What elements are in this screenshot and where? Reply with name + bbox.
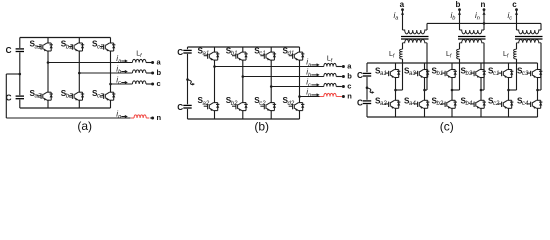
svg-text:b1: b1 xyxy=(437,71,444,77)
svg-text:a4: a4 xyxy=(409,101,416,107)
svg-text:a: a xyxy=(400,0,405,9)
svg-text:c1: c1 xyxy=(259,51,265,57)
svg-text:b4: b4 xyxy=(466,101,473,107)
svg-text:b: b xyxy=(157,68,162,77)
svg-text:d1: d1 xyxy=(288,51,295,57)
svg-text:c4: c4 xyxy=(522,101,529,107)
svg-text:c2: c2 xyxy=(97,94,104,100)
svg-text:b3: b3 xyxy=(466,71,473,77)
svg-text:C: C xyxy=(177,48,183,57)
svg-text:b2: b2 xyxy=(66,94,73,100)
svg-text:c2: c2 xyxy=(259,101,266,107)
svg-text:C: C xyxy=(177,103,183,112)
svg-text:b2: b2 xyxy=(231,101,238,107)
svg-text:c: c xyxy=(157,79,161,88)
svg-text:d2: d2 xyxy=(288,101,295,107)
svg-text:c1: c1 xyxy=(493,71,499,77)
svg-text:a3: a3 xyxy=(409,71,416,77)
svg-text:c: c xyxy=(347,82,351,91)
svg-text:(b): (b) xyxy=(254,119,269,133)
svg-text:a1: a1 xyxy=(203,51,210,57)
svg-text:a2: a2 xyxy=(203,101,210,107)
svg-text:C: C xyxy=(357,98,363,107)
svg-text:c2: c2 xyxy=(493,101,500,107)
svg-text:b1: b1 xyxy=(66,44,73,50)
svg-text:a1: a1 xyxy=(35,44,42,50)
svg-text:c3: c3 xyxy=(522,71,529,77)
svg-text:c: c xyxy=(512,0,517,9)
svg-text:n: n xyxy=(157,113,162,122)
svg-text:n: n xyxy=(481,0,486,9)
svg-text:b1: b1 xyxy=(231,51,238,57)
svg-text:C: C xyxy=(6,46,12,55)
svg-text:a2: a2 xyxy=(380,101,387,107)
svg-text:c1: c1 xyxy=(97,44,103,50)
svg-text:b: b xyxy=(347,72,352,81)
svg-text:(a): (a) xyxy=(77,119,92,133)
svg-text:(c): (c) xyxy=(440,120,454,134)
svg-text:a2: a2 xyxy=(35,94,42,100)
svg-text:b: b xyxy=(456,0,461,9)
svg-text:n: n xyxy=(347,92,352,101)
svg-text:C: C xyxy=(357,71,363,80)
svg-text:a1: a1 xyxy=(380,71,387,77)
svg-text:b2: b2 xyxy=(437,101,444,107)
